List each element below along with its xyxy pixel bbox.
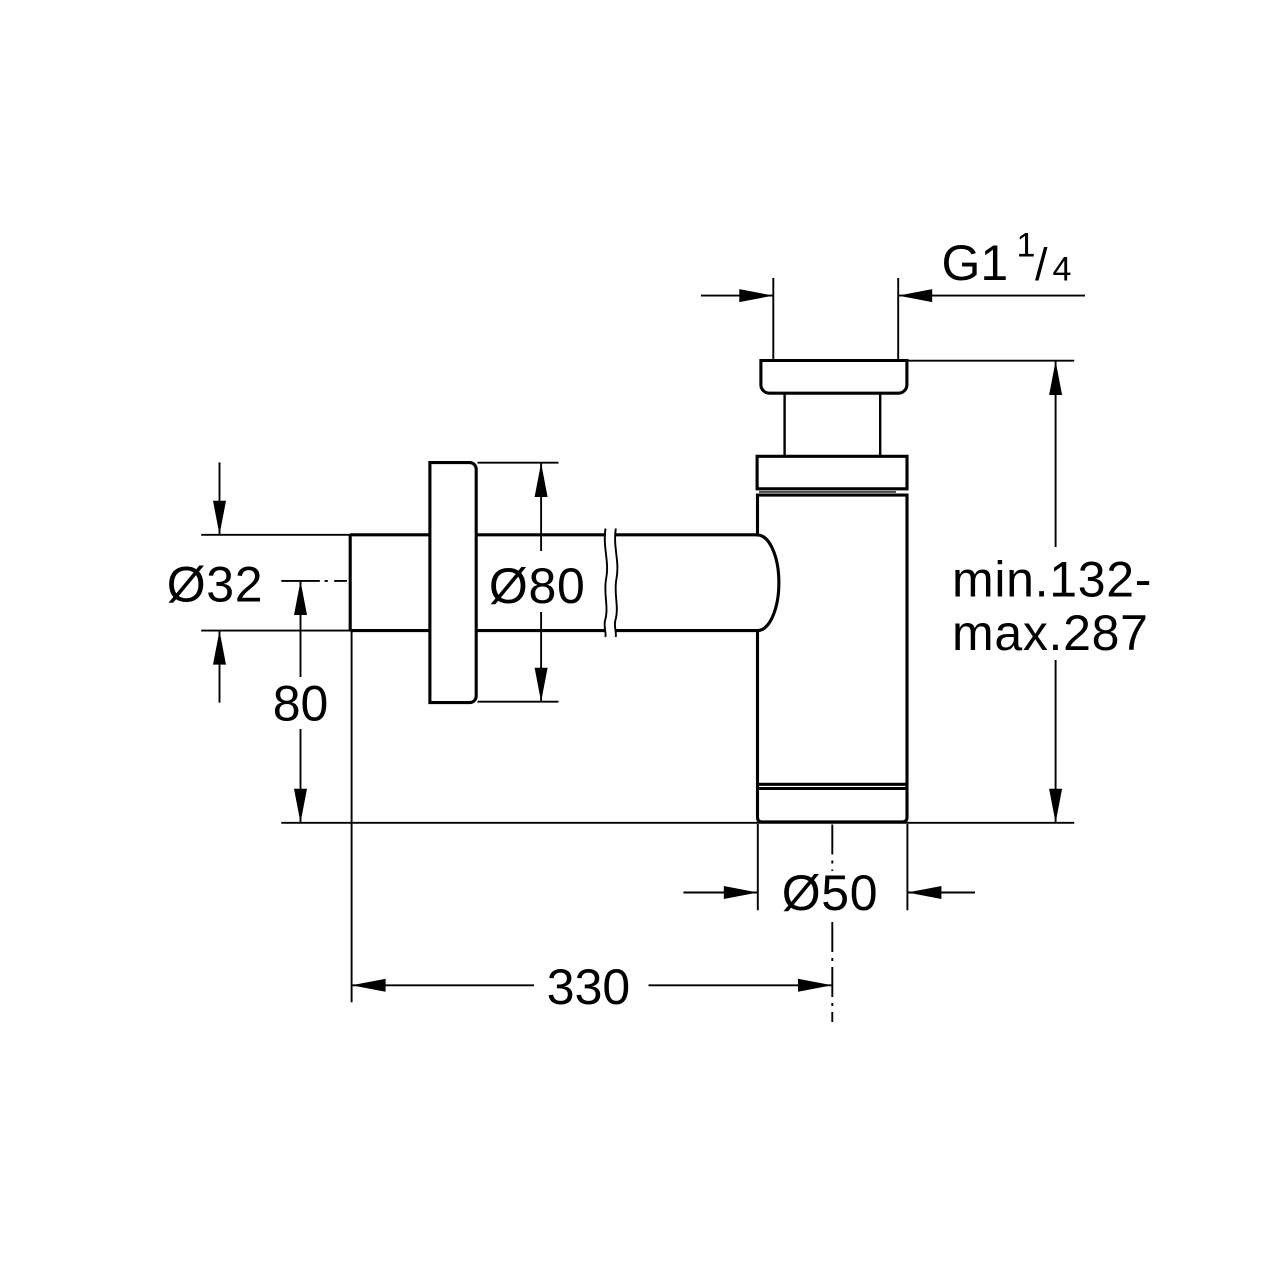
svg-text:max.287: max.287 (952, 605, 1149, 661)
svg-text:Ø80: Ø80 (489, 558, 586, 614)
neck (785, 393, 881, 456)
body bottom edge (758, 783, 908, 786)
svg-text:80: 80 (273, 675, 329, 731)
dimension G1 1/4 extension lines (773, 278, 898, 361)
wall plate (430, 463, 476, 703)
dimension D32 extension lines (201, 535, 350, 631)
dimension D80 extension lines (478, 463, 559, 702)
dimension 330 lines (352, 984, 832, 986)
dimension 330 extension line (351, 632, 353, 1002)
svg-text:/: / (1035, 239, 1048, 290)
dimension 80 lines (300, 581, 302, 823)
dimension D50 lines (683, 892, 975, 894)
body cylinder with pipe socket arc (758, 495, 908, 822)
dimension 80 arrows (294, 581, 307, 823)
cap ring top edge (758, 787, 908, 790)
pipe break symbol (605, 529, 618, 638)
svg-text:330: 330 (547, 959, 630, 1015)
collar nut (757, 456, 907, 489)
pipe horizontal outline (350, 535, 757, 631)
pipe centerline dash-dot (281, 580, 347, 582)
top flange (761, 361, 907, 394)
dimension D80 lines (540, 463, 542, 702)
dimension min132 max287 lines (1055, 361, 1057, 823)
svg-text:G1: G1 (942, 235, 1009, 291)
body centerline dash-dot (831, 825, 833, 872)
dimension D80 arrows (535, 463, 548, 702)
svg-text:Ø50: Ø50 (782, 865, 879, 921)
svg-text:Ø32: Ø32 (167, 556, 264, 612)
svg-text:1: 1 (1017, 227, 1036, 265)
dimension 330 arrows (352, 979, 832, 992)
dimension min132 max287 arrows (1049, 361, 1062, 823)
collar chamfer line (759, 491, 896, 493)
dimension D50 extension lines (758, 824, 908, 910)
baseline (281, 822, 1074, 824)
dimension G1 1/4 lines (701, 295, 1085, 297)
dimension D32 arrows (213, 501, 226, 665)
dimension D50 arrows (724, 886, 942, 899)
dimension D32 lines (219, 462, 221, 702)
svg-text:min.132-: min.132- (952, 552, 1152, 608)
svg-text:4: 4 (1053, 251, 1072, 289)
dimension min132 max287 extension line (908, 360, 1074, 362)
dimension G1 1/4 arrows (739, 289, 932, 302)
